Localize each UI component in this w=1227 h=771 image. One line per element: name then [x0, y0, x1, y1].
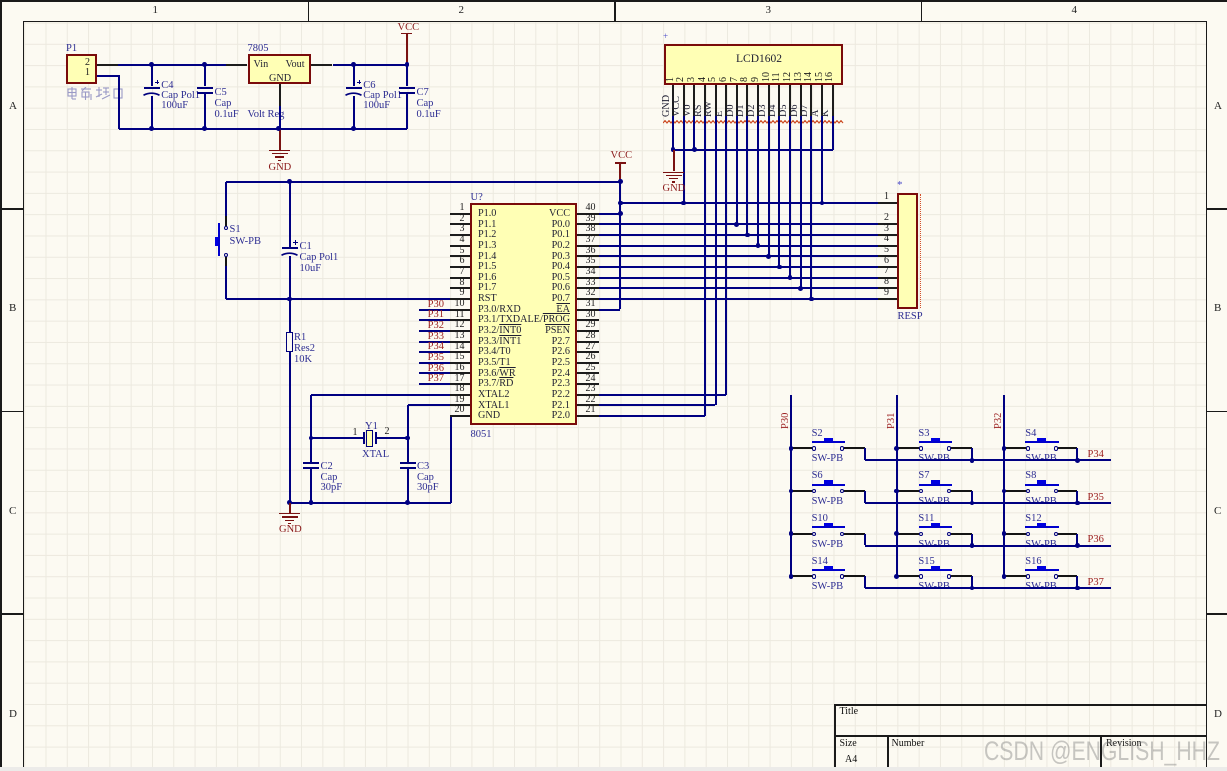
junction row P35 mid [970, 501, 975, 506]
junction ground rail left [287, 500, 292, 505]
wire column to S14 [791, 575, 812, 577]
junction P0.4 LCD D4 [777, 265, 782, 270]
junction row P34 mid [970, 458, 975, 463]
U7 pin name VCC [470, 209, 570, 220]
U7 pin name P2.3 [470, 379, 570, 390]
C1 value Cap Pol1 [300, 252, 339, 263]
net label P37 [420, 373, 444, 384]
U7 pin name P0.6 [470, 283, 570, 294]
U7 pin 23 number [586, 384, 596, 395]
junction C1 RST rail [287, 297, 292, 302]
junction column S8 [1002, 489, 1007, 494]
capacitor C6 (polarized) [346, 87, 362, 89]
switch S1 SW-PB (vertical) [224, 226, 228, 230]
wire net P31 [419, 319, 449, 321]
LCD pin name RS [694, 104, 705, 116]
junction C5 top [202, 62, 207, 67]
wire LCD D4 down [778, 116, 780, 267]
U7 pin 3 stub [450, 234, 470, 236]
LCD pin 4 stub [704, 85, 706, 116]
designator Y1 [365, 421, 378, 432]
U7 pin 8 stub [450, 287, 470, 289]
wire P1 pin2 to 7805 Vin [118, 64, 226, 66]
wire S14 corner down [864, 576, 866, 588]
U7 pin 22 number [586, 395, 596, 406]
LCD pin 2 stub [683, 85, 685, 116]
U7 pin name P2.5 [470, 358, 570, 369]
junction column S12 [1002, 531, 1007, 536]
switch S14 SW-PB [812, 574, 816, 578]
wire LCD D2 down [757, 116, 759, 246]
net label P32 (column) [993, 412, 1004, 428]
switch S4 SW-PB [1026, 446, 1030, 450]
LCD pin name D2 [747, 104, 758, 116]
net label P35 [1088, 492, 1104, 503]
wire column to S16 [1004, 575, 1026, 577]
U7 pin 38 stub [577, 234, 598, 236]
LCD pin name D7 [800, 104, 811, 116]
top zone label 2 [459, 5, 465, 17]
designator S10 [812, 513, 828, 524]
wire S4 corner down [1076, 448, 1078, 460]
LCD pin 1 stub [672, 85, 674, 116]
net label P31 (column) [886, 412, 897, 428]
RESP pin 6 number [866, 256, 889, 267]
LCD pin 15 number [815, 72, 826, 82]
designator S14 [812, 556, 828, 567]
U7 pin 31 number [586, 299, 596, 310]
R1 value 10K [294, 354, 312, 365]
pin S1 top [225, 216, 227, 226]
junction column S6 [789, 489, 794, 494]
wire LCD D0 down [736, 116, 738, 224]
U7 pin name P2.7 [470, 337, 570, 348]
wire C3 bottom [407, 467, 409, 502]
U7 pin name P3.4/T0 [478, 347, 511, 358]
wire LCD VCC down [683, 116, 685, 203]
U7 pin 6 number [439, 256, 465, 267]
U7 pin 1 stub [450, 213, 470, 215]
wire S1 top [225, 182, 227, 216]
wire keypad row P37 [865, 587, 1110, 589]
U7 pin name XTAL2 [478, 390, 509, 401]
title block label Number [892, 739, 925, 750]
wire column to S8 [1004, 490, 1026, 492]
left zone label D [9, 709, 17, 721]
U7 pin 26 number [586, 352, 596, 363]
wire to ground symbol [279, 129, 281, 150]
RESP marker [897, 180, 903, 192]
junction row P37 right [1075, 586, 1080, 591]
LCD pin 7 number [730, 77, 741, 82]
U7 pin 8 number [439, 278, 465, 289]
junction LCD GND [671, 147, 676, 152]
switch S10 SW-PB [812, 532, 816, 536]
wire column to S4 [1004, 447, 1026, 449]
U7 pin 35 number [586, 256, 596, 267]
designator C6 [363, 80, 375, 91]
wire LCD K down [832, 116, 834, 150]
wire S10 to corner [844, 533, 866, 535]
wire LCD RW to P2.1 [715, 116, 717, 405]
ground symbol power section [269, 150, 290, 151]
wire P1 pin1 down [118, 76, 120, 129]
watermark CSDN [984, 738, 1220, 766]
junction column S14 [789, 574, 794, 579]
wire S11 corner down [971, 534, 973, 546]
title block label Title [840, 707, 859, 718]
wire S8 corner down [1076, 491, 1078, 503]
C7 value Cap [417, 98, 434, 109]
net label P32 [420, 320, 444, 331]
U7 pin 5 stub [450, 255, 470, 257]
LCD pin 14 number [804, 72, 815, 82]
wire net P35 [419, 362, 449, 364]
label 电源接口 (power connector) [66, 87, 124, 100]
wire R1 bottom to ground rail [289, 352, 291, 503]
junction row P36 mid [970, 543, 975, 548]
designator S6 [812, 470, 823, 481]
LCD pin 11 stub [778, 85, 780, 116]
RESP pin 2 stub [878, 223, 898, 225]
title block label Size [840, 739, 857, 750]
switch S3 SW-PB [919, 446, 923, 450]
junction row P37 mid [970, 586, 975, 591]
LCD pin 15 stub [821, 85, 823, 116]
U7 pin 22 stub [577, 404, 598, 406]
U7 pin name P0.2 [470, 241, 570, 252]
wire RST net to U7 pin9 [226, 298, 450, 300]
VCC label U7 [611, 150, 633, 161]
designator 7805 [248, 43, 269, 54]
right zone label B [1214, 303, 1221, 315]
U7 pin name XTAL1 [478, 401, 509, 412]
U7 pin 37 stub [577, 245, 598, 247]
wire net P32 [419, 330, 449, 332]
LCD pin 5 stub [715, 85, 717, 116]
wire C4 top [151, 65, 153, 87]
S14 value SW-PB [812, 581, 844, 592]
pin stub P1.1 [97, 75, 118, 77]
U7 pin 16 number [439, 363, 465, 374]
LCD pin name D1 [736, 104, 747, 116]
switch S8 SW-PB [1026, 489, 1030, 493]
wire P0.7 row [599, 298, 878, 300]
designator S15 [918, 556, 934, 567]
LCD pin name E [715, 110, 726, 116]
wire LCD GND down [672, 116, 674, 150]
RESP pin 4 number [866, 234, 889, 245]
net label P37 [1088, 577, 1104, 588]
wire S7 corner down [971, 491, 973, 503]
C5 value 0.1uF [215, 109, 239, 120]
wire S2 to corner [844, 447, 866, 449]
switch S7 SW-PB [919, 489, 923, 493]
LCD pin 16 stub [832, 85, 834, 116]
S3 value SW-PB [918, 453, 950, 464]
U7 pin 40 number [586, 203, 596, 214]
U7 pin 39 number [586, 214, 596, 225]
U7 pin name P1.0 [478, 209, 496, 220]
top zone label 3 [766, 5, 772, 17]
S12 value SW-PB [1025, 539, 1057, 550]
U7 pin 9 number [439, 288, 465, 299]
wire S7 to corner [951, 490, 972, 492]
U7 pin name EA [470, 305, 570, 316]
power symbol VCC (top left) [401, 33, 412, 35]
junction VCC LCD rail [618, 201, 623, 206]
LCD pin 12 number [783, 72, 794, 82]
LCD pin 5 number [708, 77, 719, 82]
U7 pin 36 stub [577, 255, 598, 257]
designator P1 [66, 43, 77, 54]
ground symbol LCD [663, 172, 684, 173]
U7 pin 12 stub [450, 330, 470, 332]
wire C5 bottom [204, 92, 206, 129]
ground label GND 2 [279, 524, 302, 535]
LCD1602 title [736, 53, 782, 65]
U7 pin 15 number [439, 352, 465, 363]
designator C3 [417, 461, 429, 472]
junction crystal pin2 [405, 436, 410, 441]
designator S12 [1025, 513, 1041, 524]
junction P0.5 LCD D5 [788, 275, 793, 280]
junction VCC rail [618, 179, 623, 184]
designator R1 [294, 332, 306, 343]
C3 value Cap [417, 472, 434, 483]
RESP pin 7 number [866, 266, 889, 277]
left zone label B [9, 303, 16, 315]
LCD pin 3 number [687, 77, 698, 82]
LCD pin name D4 [768, 104, 779, 116]
pin stub 7805 GND [279, 84, 281, 105]
junction C4 top [149, 62, 154, 67]
U7 pin 3 number [439, 224, 465, 235]
U7 pin 13 stub [450, 341, 470, 343]
wire column to S3 [897, 447, 919, 449]
U7 pin 14 number [439, 342, 465, 353]
U7 pin 25 number [586, 363, 596, 374]
LCD pin 10 number [762, 72, 773, 82]
wire P0.0 row [599, 223, 878, 225]
S8 value SW-PB [1025, 496, 1057, 507]
switch S16 SW-PB [1026, 574, 1030, 578]
crystal Y1 [363, 432, 365, 444]
7805 comment Volt Reg [248, 109, 285, 120]
wire S4 to corner [1058, 447, 1078, 449]
wire P2.1 to LCD RW [599, 404, 716, 406]
U7 pin name P2.0 [470, 411, 570, 422]
wire C1 bottom [289, 256, 291, 299]
wire ground rail power section [119, 128, 407, 130]
LCD pin name VCC [672, 96, 683, 117]
wire column to S15 [897, 575, 919, 577]
top zone separator [308, 2, 310, 22]
LCD pin 10 stub [768, 85, 770, 116]
junction P0.0 LCD D0 [734, 222, 739, 227]
regulator U 7805 [248, 54, 312, 85]
wire column to S2 [791, 447, 812, 449]
S11 value SW-PB [918, 539, 950, 550]
LCD pin 13 number [794, 72, 805, 82]
P1 pin 1 number [80, 68, 90, 79]
U7 pin 20 stub [450, 415, 470, 417]
RESP pin 6 stub [878, 266, 898, 268]
wire S14 to corner [844, 575, 866, 577]
net label P34 [1088, 449, 1104, 460]
LCD pin 11 number [772, 72, 783, 82]
wire VCC rail to LCD and RESP [620, 202, 877, 204]
wire S8 to corner [1058, 490, 1078, 492]
U7 pin 6 stub [450, 266, 470, 268]
junction C6 top [351, 62, 356, 67]
designator S3 [918, 428, 929, 439]
designator S2 [812, 428, 823, 439]
U7 pin 37 number [586, 235, 596, 246]
sheet outer border top [0, 0, 1227, 2]
C6 value 100uF [363, 100, 390, 111]
LCD pin 6 stub [725, 85, 727, 116]
U7 pin 33 stub [577, 287, 598, 289]
U7 pin name RST [478, 294, 497, 305]
LCD1602 marker [663, 32, 668, 41]
designator S4 [1025, 428, 1036, 439]
net label P31 [420, 309, 444, 320]
designator S1 [230, 224, 241, 235]
U7 pin name P3.2/INT0 [478, 326, 521, 337]
U7 pin name P3.6/WR [478, 369, 516, 380]
junction column S11 [894, 531, 899, 536]
RESP pin 1 stub [878, 202, 898, 204]
U7 pin 28 number [586, 331, 596, 342]
designator S16 [1025, 556, 1041, 567]
top zone separator [921, 2, 923, 22]
U7 pin name P1.6 [478, 273, 496, 284]
wire 7805 GND down [279, 106, 281, 129]
designator C5 [215, 87, 227, 98]
designator C4 [161, 80, 173, 91]
U7 pin name P2.4 [470, 369, 570, 380]
U7 pin 18 stub [450, 394, 470, 396]
wire net P34 [419, 351, 449, 353]
wire P1 pin1 right [97, 75, 120, 77]
U7 value 8051 [471, 429, 492, 440]
U7 pin 10 number [439, 299, 465, 310]
wire LCD ground rail [673, 149, 833, 151]
wire 7805 Vout to VCC [333, 64, 407, 66]
wire column to S6 [791, 490, 812, 492]
junction LCD VCC pin2 [681, 201, 686, 206]
LCD pin name GND [662, 94, 673, 116]
LCD pin 4 number [698, 77, 709, 82]
wire S3 corner down [971, 448, 973, 460]
U7 pin name P1.5 [478, 262, 496, 273]
wire C6 bottom [353, 96, 355, 129]
S15 value SW-PB [918, 581, 950, 592]
wire column to S12 [1004, 533, 1026, 535]
wire keypad column P30 [790, 395, 792, 575]
switch S2 SW-PB [812, 446, 816, 450]
red dotted marker right of RESP [920, 194, 921, 308]
RESP pin 3 stub [878, 234, 898, 236]
U7 pin 39 stub [577, 223, 598, 225]
U7 pin name P3.0/RXD [478, 305, 521, 316]
RESP pin 5 stub [878, 255, 898, 257]
RESP pin 3 number [866, 224, 889, 235]
U7 pin 21 stub [577, 415, 598, 417]
RESP pin 4 stub [878, 245, 898, 247]
U7 pin name P0.4 [470, 262, 570, 273]
wire S2 corner down [864, 448, 866, 460]
U7 pin name P2.2 [470, 390, 570, 401]
wire P0.2 row [599, 245, 878, 247]
U7 pin name P1.4 [478, 252, 496, 263]
junction column S2 [789, 446, 794, 451]
U7 pin 28 stub [577, 341, 598, 343]
red squiggle under LCD pin names [663, 120, 845, 124]
U7 pin 32 number [586, 288, 596, 299]
junction column S16 [1002, 574, 1007, 579]
P1 pin 2 number [80, 58, 90, 69]
U7 pin 31 stub [577, 309, 598, 311]
U7 pin name P0.0 [470, 220, 570, 231]
U7 pin 12 number [439, 320, 465, 331]
S6 value SW-PB [812, 496, 844, 507]
connector P1 [66, 54, 97, 85]
wire P2.2 to LCD E [599, 394, 726, 396]
sheet outer border left [0, 0, 2, 767]
wire C1 top [289, 182, 291, 247]
7805 pin GND [269, 74, 291, 85]
U7 pin name P1.7 [478, 283, 496, 294]
RESP pin 8 stub [878, 287, 898, 289]
wire crystal ground rail [290, 502, 451, 504]
capacitor C5 [197, 87, 213, 89]
S1 value SW-PB [230, 236, 262, 247]
LCD pin name D3 [758, 104, 769, 116]
right zone separator [1207, 613, 1227, 615]
right zone label D [1214, 709, 1222, 721]
wire keypad row P35 [865, 502, 1110, 504]
wire LCD RS to P2.0 [704, 116, 706, 416]
title block label A4 [845, 755, 857, 766]
R1 value Res2 [294, 343, 315, 354]
LCD pin name D0 [726, 104, 737, 116]
7805 pin Vin [254, 60, 269, 71]
U7 pin name P1.1 [478, 220, 496, 231]
U7 pin 2 number [439, 214, 465, 225]
RESP pin 2 number [866, 213, 889, 224]
junction P0.7 LCD D7 [809, 297, 814, 302]
junction C5 bottom [202, 126, 207, 131]
wire S12 corner down [1076, 534, 1078, 546]
U7 pin 24 number [586, 374, 596, 385]
wire S3 to corner [951, 447, 972, 449]
title block label Revision [1106, 739, 1142, 750]
ground symbol crystal circuit [279, 513, 300, 514]
U7 pin 27 number [586, 342, 596, 353]
designator S8 [1025, 470, 1036, 481]
U7 pin name GND [478, 411, 500, 422]
wire C7 bottom [406, 92, 408, 129]
wire P0.3 row [599, 255, 878, 257]
switch S12 SW-PB [1026, 532, 1030, 536]
wire P2.0 to LCD RS [599, 415, 705, 417]
U7 pin 14 stub [450, 351, 470, 353]
wire XTAL1 net [408, 404, 450, 406]
LCD pin 8 number [740, 77, 751, 82]
switch S11 SW-PB [919, 532, 923, 536]
